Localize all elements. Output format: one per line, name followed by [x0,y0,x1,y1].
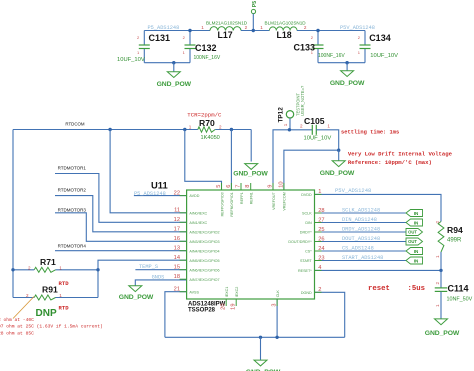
svg-text:P5V_ADS1248: P5V_ADS1248 [340,25,375,31]
wire RTDMOTOR2 [55,196,187,232]
svg-text:1: 1 [59,293,62,298]
svg-text:499R: 499R [447,238,462,244]
pin 10 VREFCOM [283,183,285,190]
svg-text:2 ohm at -40C: 2 ohm at -40C [0,317,34,323]
capacitor C114 [440,270,442,288]
junction TP12 / VREFOUT bus [288,128,291,131]
pin 23 START [315,260,322,262]
svg-text:RTDMOTOR1: RTDMOTOR1 [58,165,87,170]
port IN START_ADS1248 [406,257,423,264]
resistor R91 (DNP) [34,295,55,300]
svg-text:C132: C132 [195,43,217,53]
svg-text:7: 7 [235,185,241,188]
svg-text:17: 17 [174,227,180,233]
svg-text:P5V_ADS1248: P5V_ADS1248 [335,187,371,194]
junction C133 / top bus [316,29,319,32]
svg-text:RTD: RTD [59,280,70,287]
svg-text:GND_POW: GND_POW [330,80,365,87]
svg-text:24: 24 [318,246,324,252]
wire L17 to L18 through P5 node [241,30,269,32]
svg-text:BLM21AG102SN1D: BLM21AG102SN1D [206,21,248,26]
wire GNDS AIN7 to ground [135,280,186,286]
pin 15 AIN6/IEXC/GPIO6 [180,269,187,271]
svg-text:TEMP_S: TEMP_S [139,264,158,270]
pin 1 DVDD [315,193,322,195]
pin 5 REFP0/GPIO0 [221,183,223,190]
wire R71 row [13,269,34,271]
svg-text:REFP1: REFP1 [240,192,244,204]
svg-text:Reference: 10ppm/'C (max): Reference: 10ppm/'C (max) [348,159,432,166]
svg-text:14: 14 [174,255,180,261]
wire VREFCOM connection [284,150,339,190]
junction GND tap left group [172,61,175,64]
wire top bus left segment C131 to L17 [144,30,210,32]
wire RESET pin 4 [315,269,442,271]
svg-text:1: 1 [201,25,204,30]
svg-text:2: 2 [245,25,248,30]
svg-text:TCR=2ppm/C: TCR=2ppm/C [187,112,222,119]
junction left rail / R71 [11,268,14,271]
port IN DIN_ADS1248 [406,219,423,226]
wire SCLK_ADS1248 [315,212,407,214]
wire R70 right down to ground [250,130,252,162]
port OUT DRDY_ADS1248 [406,229,423,236]
svg-text:26: 26 [318,236,324,242]
wire bottom bus C131-C132 [144,62,190,64]
wire L18 to C134 top bus right segment [297,30,365,32]
ground GND_POW (VREFCOM) [332,161,345,167]
wire RTDCOM drop to AIN0 [110,130,187,213]
svg-text:8: 8 [245,185,251,188]
svg-text:reset: reset [368,285,390,293]
wire GND stem left group [173,63,175,72]
svg-text:R71: R71 [40,257,56,267]
svg-text:IEXC2: IEXC2 [235,287,239,298]
port IN SCLK_ADS1248 [406,210,423,217]
pin 2 DGND [315,291,322,293]
svg-text:RESET*: RESET* [298,269,312,273]
wire REFP0 Z-connection [185,130,222,191]
svg-text:2: 2 [26,293,29,298]
wire bottom bus C133-C134 [318,62,365,64]
svg-text:GND_POW: GND_POW [157,81,192,88]
svg-text:18: 18 [174,274,180,280]
svg-text:AIN6/IEXC/GPIO6: AIN6/IEXC/GPIO6 [189,268,219,272]
svg-text:28 ohm at 85C: 28 ohm at 85C [0,331,34,337]
svg-text:10NF_50V: 10NF_50V [447,296,473,302]
svg-text:10UF_10V: 10UF_10V [370,53,398,59]
svg-text:DIN: DIN [305,221,312,225]
wire DRDY_ADS1248 [315,231,407,233]
ground GND_POW (GNDS) [129,286,142,292]
svg-text:GNDS: GNDS [152,274,165,280]
junction R71 / R91 / AIN5 [96,268,99,271]
svg-text:U11: U11 [151,180,168,191]
capacitor C132 [189,31,191,46]
svg-text:GND_POW: GND_POW [119,294,154,301]
svg-text:2: 2 [300,124,303,129]
ground GND_POW (bottom) [254,360,267,366]
svg-text:GND_POW: GND_POW [425,330,460,337]
svg-text:2: 2 [358,35,361,40]
svg-text:DIN_ADS1248: DIN_ADS1248 [342,217,377,223]
svg-text:100NF_16V: 100NF_16V [194,55,221,61]
svg-text:VREFOUT: VREFOUT [272,191,276,209]
pin 28 SCLK [315,212,322,214]
wire R94 bottom to RESET node [440,252,442,270]
svg-text:DRDY_ADS1248: DRDY_ADS1248 [342,226,380,232]
svg-text:1: 1 [435,304,440,307]
port IN CS_ADS1248 [406,248,423,255]
wire RTDMOTOR1 [55,174,187,223]
svg-text:GND_POW: GND_POW [320,170,355,177]
svg-text:1: 1 [318,189,321,195]
svg-text:100NF_16V: 100NF_16V [318,53,345,59]
svg-text:10UF_10V: 10UF_10V [304,135,332,141]
junction CLK / rail [275,336,278,339]
svg-text:DRDY*: DRDY* [300,231,312,235]
svg-text:07 ohm at 25C (1.63V if 1.5mA: 07 ohm at 25C (1.63V if 1.5mA current) [0,324,103,330]
wire RTDMOTOR3 [55,213,187,242]
wire bottom ground rail [165,336,345,338]
svg-text:28: 28 [318,208,324,214]
wire GND stem bottom [260,337,262,360]
annotation pointer line to R91 [13,297,34,319]
svg-text:DNP: DNP [36,308,57,319]
svg-text:DOUT/DRDY*: DOUT/DRDY* [288,240,312,244]
wire REFN0 drop [230,130,232,191]
svg-text:DGND: DGND [301,291,312,295]
svg-text::5us: :5us [408,285,426,293]
ground GND_POW (C133/C134) [341,71,354,77]
wire AVSS to bottom rail [165,292,187,338]
svg-text:AIN4/IEXC/GPIO4: AIN4/IEXC/GPIO4 [189,249,219,253]
svg-text:1: 1 [137,50,140,55]
svg-text:GND_POW: GND_POW [233,170,268,177]
junction C132 / top bus [188,29,191,32]
svg-text:AIN5/IEXC/GPIO5: AIN5/IEXC/GPIO5 [189,259,219,263]
pin 6 REFN0/GPIO1 [230,183,232,190]
svg-text:IEXC1: IEXC1 [225,287,229,298]
svg-text:2: 2 [435,221,440,224]
svg-text:TSSOP28: TSSOP28 [188,307,216,313]
node P5 off-page connector [251,9,255,13]
svg-text:settling time: 1ms: settling time: 1ms [341,130,399,136]
svg-text:4: 4 [318,265,321,271]
svg-text:AVSS: AVSS [189,290,199,294]
svg-text:19: 19 [231,304,237,310]
wire DGND pin 2 [315,292,345,337]
capacitor C131 [143,31,145,46]
wire AIN5 to R71/R91 node [98,260,187,297]
wire DVDD pin 1 to R94 [315,194,442,221]
svg-text:RTDMOTOR3: RTDMOTOR3 [58,208,87,213]
pin 4 RESET* [315,269,322,271]
resistor R71 [34,267,55,272]
op-amp/ADC IC U11 ADS1248IPW body [187,190,315,299]
resistor R70 [198,127,215,132]
svg-text:Very Low Drift Internal Voltag: Very Low Drift Internal Voltage [348,151,453,158]
port OUT DOUT_ADS1248 [406,238,423,245]
svg-text:USER_NOTE=?: USER_NOTE=? [300,85,305,116]
svg-text:IN: IN [414,249,419,254]
svg-text:REFP0/GPIO0: REFP0/GPIO0 [220,192,224,216]
svg-text:1: 1 [283,123,288,126]
svg-text:AIN2/IEXC/GPIO2: AIN2/IEXC/GPIO2 [189,230,219,234]
pin 22 AVDD [180,195,187,197]
junction R70 right / REFN0 drop [230,128,233,131]
svg-text:L18: L18 [277,30,292,40]
svg-text:P5: P5 [252,1,258,7]
svg-text:20: 20 [221,304,227,310]
svg-text:R70: R70 [199,118,215,128]
svg-text:OUT: OUT [408,239,417,244]
svg-text:2: 2 [28,265,31,270]
svg-text:DOUT_ADS1248: DOUT_ADS1248 [342,236,380,242]
svg-text:9: 9 [267,185,273,188]
pin 27 DIN [315,222,322,224]
testpoint TP12 [286,111,293,118]
svg-text:2: 2 [435,282,440,285]
svg-text:START_ADS1248: START_ADS1248 [342,255,383,261]
pin 21 AVSS [180,291,187,293]
pin 7 REFP1 [240,183,242,190]
svg-text:1: 1 [358,50,361,55]
svg-text:1: 1 [59,265,62,270]
svg-text:C131: C131 [149,33,171,43]
wire AVDD pin 22 [134,195,187,197]
wire RTDMOTOR4 [55,250,187,252]
svg-text:AIN1/IEXC: AIN1/IEXC [189,221,207,225]
inductor L18 [269,27,297,31]
svg-text:12: 12 [174,217,180,223]
pin 25 DRDY* [315,231,322,233]
wire TP12 stem [289,118,291,130]
svg-text:VREFCOM: VREFCOM [283,192,287,210]
left rail RTDCOM to R71/R91 [12,130,14,298]
svg-text:IN: IN [414,220,419,225]
svg-text:1: 1 [260,25,263,30]
svg-text:11: 11 [174,208,180,214]
svg-text:AIN7/IEXC/GPIO7: AIN7/IEXC/GPIO7 [189,278,219,282]
svg-text:22: 22 [174,190,180,196]
svg-text:C114: C114 [448,283,469,293]
junction GND tap right group [345,61,348,64]
svg-text:2: 2 [219,124,222,129]
svg-text:CS_ADS1248: CS_ADS1248 [342,245,374,251]
svg-text:IN: IN [414,211,419,216]
svg-text:C134: C134 [369,33,391,43]
svg-text:21: 21 [174,287,180,293]
pin 20 IEXC1 [225,299,227,306]
svg-text:RTD: RTD [59,305,70,312]
svg-text:2: 2 [304,25,307,30]
svg-text:DVDD: DVDD [301,193,312,197]
svg-text:1: 1 [183,50,186,55]
svg-text:RTDCOM: RTDCOM [65,122,85,127]
svg-text:C105: C105 [304,116,325,126]
svg-text:16: 16 [174,236,180,242]
svg-text:AIN3/IEXC/GPIO3: AIN3/IEXC/GPIO3 [189,240,219,244]
pin 17 AIN2/IEXC/GPIO2 [180,231,187,233]
svg-text:25: 25 [318,227,324,233]
wire RTDCOM bus [13,129,198,131]
svg-text:P5_ADS1248: P5_ADS1248 [148,25,180,31]
ground GND_POW (reference negative) [245,164,258,170]
wire R70 right to REFN0/GND corner [215,129,251,131]
wire CLK pin 3 drop [276,299,278,337]
svg-text:REFN1: REFN1 [250,192,254,204]
svg-text:OUT: OUT [408,230,417,235]
svg-text:1: 1 [327,124,330,129]
svg-text:RTDMOTOR4: RTDMOTOR4 [58,243,87,248]
pin 19 IEXC2 [235,299,237,306]
junction RTDCOM / AIN0 drop [108,128,111,131]
pin 12 AIN1/IEXC [180,221,187,223]
svg-text:1: 1 [435,255,440,258]
svg-text:IN: IN [414,258,419,263]
resistor R94 [438,222,444,253]
wire C105 right to corner [316,130,338,150]
svg-text:5: 5 [216,185,222,188]
inductor L17 [210,27,241,31]
pin 16 AIN3/IEXC/GPIO3 [180,240,187,242]
junction R94 / C114 / RESET [439,269,442,272]
wire DOUT_ADS1248 [315,241,407,243]
svg-text:2: 2 [183,35,186,40]
wire P5 stem [252,14,254,31]
junction GND tap / rail [259,336,262,339]
wire TEMP_S stub AIN6 [135,269,186,271]
wire CS_ADS1248 [315,250,407,252]
svg-text:2: 2 [318,287,321,293]
ground GND_POW (C114) [435,319,448,325]
pin 9 VREFOUT [272,183,274,190]
svg-text:R91: R91 [42,284,58,294]
svg-text:6: 6 [226,185,232,188]
svg-text:15: 15 [174,265,180,271]
svg-text:SCLK_ADS1248: SCLK_ADS1248 [342,207,380,213]
svg-text:START: START [300,259,312,263]
svg-text:1: 1 [189,124,192,129]
wire GND stem VREFCOM [338,150,340,161]
pin 3 CLK [276,299,278,306]
svg-text:23: 23 [318,255,324,261]
pin 26 DOUT/DRDY* [315,241,322,243]
wire GND stem right group [346,63,348,71]
svg-text:10UF_10V: 10UF_10V [117,57,145,63]
pin 8 REFN1 [250,183,252,190]
svg-text:10: 10 [278,181,284,187]
pin 11 AIN0/IEXC [180,212,187,214]
pin 13 AIN4/IEXC/GPIO4 [180,250,187,252]
wire START_ADS1248 [315,260,407,262]
svg-text:AIN0/IEXC: AIN0/IEXC [189,211,207,215]
svg-text:13: 13 [174,246,180,252]
svg-text:CLK: CLK [276,290,280,298]
svg-text:AVDD: AVDD [189,194,199,198]
svg-text:2: 2 [311,35,314,40]
junction VREFCOM / C105 / GND [337,149,340,152]
svg-text:CS*: CS* [305,250,312,254]
wire VREFOUT riser and TP12/C105 bus [273,130,312,190]
svg-text:1K4050: 1K4050 [201,135,220,141]
svg-text:RTDMOTOR2: RTDMOTOR2 [58,187,87,192]
pin 18 AIN7/IEXC/GPIO7 [180,278,187,280]
ground GND_POW (C131/C132) [167,72,180,78]
svg-text:27: 27 [318,217,324,223]
capacitor C105 [311,125,313,135]
wire DIN_ADS1248 [315,222,407,224]
capacitor C134 [364,31,366,46]
svg-text:R94: R94 [447,225,463,235]
svg-text:TP12: TP12 [278,107,285,123]
pin 14 AIN5/IEXC/GPIO5 [180,259,187,261]
svg-text:REFN0/GPIO1: REFN0/GPIO1 [230,192,234,216]
junction P5 / top bus [252,29,255,32]
svg-text:2: 2 [137,35,140,40]
svg-text:SCLK: SCLK [302,212,312,216]
pin 24 CS* [315,250,322,252]
capacitor C133 [317,31,319,46]
svg-text:L17: L17 [218,30,233,40]
svg-text:P5_ADS1248: P5_ADS1248 [134,191,166,197]
wire R91 row [13,297,34,299]
svg-text:3: 3 [272,304,278,307]
svg-text:BLM21AG102SN1D: BLM21AG102SN1D [265,21,307,26]
junction RTDCOM / REFP0 drop [183,128,186,131]
